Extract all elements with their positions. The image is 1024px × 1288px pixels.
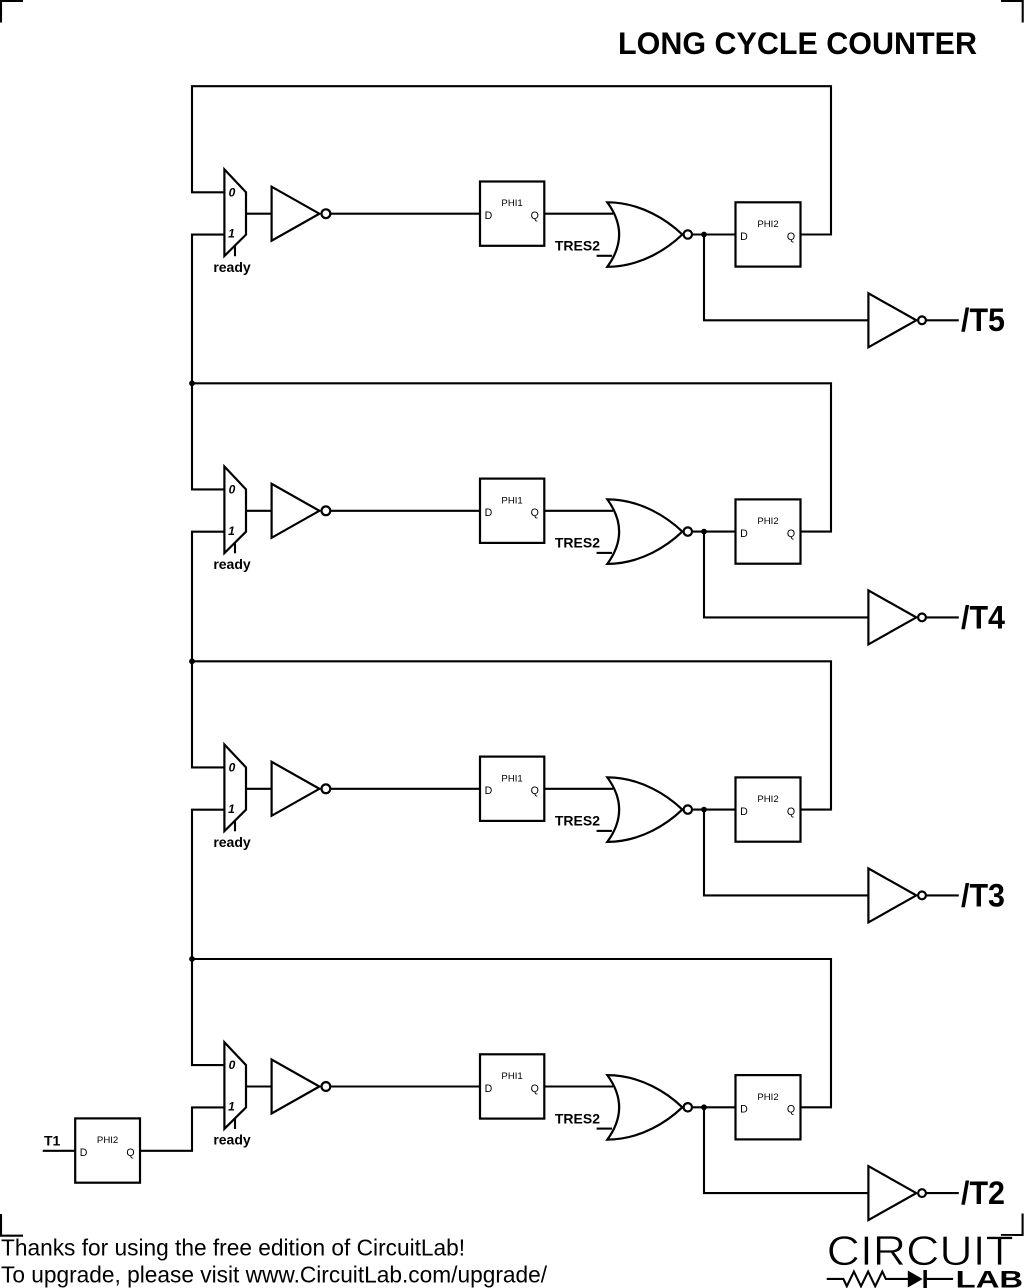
svg-text:ready: ready — [213, 556, 251, 572]
svg-text:TRES2: TRES2 — [555, 813, 600, 829]
svg-text:TRES2: TRES2 — [555, 1110, 600, 1126]
wire: mux input 1 chain row 2 — [192, 532, 224, 662]
svg-text:PHI2: PHI2 — [97, 1135, 118, 1146]
wire: NOR output down to output inverter row 4 — [704, 1107, 868, 1193]
wire: mux input 1 chain row 1 — [192, 235, 224, 384]
wire: PHI1 Q to NOR input row 1 — [544, 213, 613, 215]
D latch PHI2 row 4 — [736, 1075, 801, 1139]
wire: NOR output down to output inverter row 3 — [704, 810, 868, 896]
svg-text:0: 0 — [229, 185, 236, 199]
svg-text:0: 0 — [229, 1058, 236, 1072]
D latch PHI2 row 3 — [736, 777, 801, 841]
diode (logo) — [908, 1270, 953, 1288]
wire: PHI1 Q to NOR input row 4 — [544, 1085, 613, 1087]
inverter (output /T4) row 2 — [868, 590, 925, 644]
svg-text:/T2: /T2 — [961, 1175, 1005, 1211]
svg-text:PHI1: PHI1 — [501, 198, 522, 209]
svg-text:Q: Q — [531, 210, 539, 222]
inverter (driver) row 2 — [272, 484, 331, 538]
NOR gate row 4 — [607, 1075, 692, 1140]
D latch PHI2 row 1 — [736, 202, 801, 266]
wire: PHI1 Q to NOR input row 3 — [544, 788, 613, 790]
wire: NOR output down to output inverter row 2 — [704, 532, 868, 618]
NOR gate row 1 — [607, 202, 692, 266]
svg-text:/T5: /T5 — [961, 302, 1005, 338]
row 3 : stage for output /T3 — [189, 658, 1005, 959]
mux select pin tick — [234, 246, 236, 257]
wire: NOR out to PHI2 D row 3 — [692, 809, 736, 811]
svg-text:Q: Q — [126, 1147, 134, 1159]
wire: output inverter to label /T4 — [926, 616, 959, 618]
svg-text:Thanks for using the free edit: Thanks for using the free edition of Cir… — [1, 1235, 465, 1261]
svg-text:0: 0 — [229, 761, 236, 775]
svg-text:D: D — [740, 231, 748, 243]
svg-text:1: 1 — [228, 227, 235, 241]
wire: mux output to inverter row 4 — [246, 1085, 272, 1087]
wire: feedback net row 1 (PHI2 Q up over to mux input 0) — [192, 86, 831, 234]
mux row 4 (select: ready) — [213, 1042, 251, 1148]
svg-text:PHI2: PHI2 — [757, 219, 778, 230]
svg-text:PHI2: PHI2 — [757, 794, 778, 805]
wire: NOR out to PHI2 D row 4 — [692, 1106, 736, 1108]
NOR output bubble — [684, 805, 692, 813]
svg-text:TRES2: TRES2 — [555, 535, 600, 551]
wire: inverter out to PHI1 D row 4 — [330, 1085, 480, 1087]
svg-text:ready: ready — [213, 1132, 251, 1148]
svg-text:D: D — [80, 1147, 88, 1159]
svg-text:LAB: LAB — [956, 1266, 1023, 1288]
inverter (driver) row 4 — [272, 1060, 331, 1114]
wire: T1 input stub — [43, 1150, 75, 1152]
svg-text:Q: Q — [531, 785, 539, 797]
mux row 3 (select: ready) — [213, 745, 251, 851]
wire: NOR out to PHI2 D row 2 — [692, 531, 736, 533]
svg-text:Q: Q — [531, 507, 539, 519]
wire: inverter out to PHI1 D row 1 — [330, 213, 480, 215]
wire: feedback net row 3 (PHI2 Q up over to mux input 0) — [192, 661, 831, 809]
wire: mux input 1 chain row 3 — [192, 810, 224, 959]
wire: diode to LAB — [927, 1278, 953, 1280]
junction: node at NOR output row 3 — [701, 807, 707, 813]
mux select pin tick — [234, 821, 236, 832]
NOR output bubble — [684, 230, 692, 238]
wire: output inverter to label /T5 — [926, 319, 959, 321]
svg-text:1: 1 — [228, 524, 235, 538]
junction: node at NOR output row 4 — [701, 1104, 707, 1110]
wire: TRES2 stub to NOR lower input row 1 — [597, 255, 612, 257]
svg-text:D: D — [740, 1104, 748, 1116]
svg-text:0: 0 — [229, 483, 236, 497]
junction: node at NOR output row 2 — [701, 529, 707, 535]
inverter (output /T3) row 3 — [868, 868, 925, 922]
inverter (driver) row 1 — [272, 187, 331, 241]
svg-text:1: 1 — [228, 1100, 235, 1114]
D latch PHI1 row 2 — [480, 479, 544, 543]
svg-text:ready: ready — [213, 259, 251, 275]
wire: feedback net row 2 (PHI2 Q up over to mux input 0) — [192, 383, 831, 531]
svg-text:Q: Q — [787, 231, 795, 243]
svg-text:D: D — [485, 785, 493, 797]
inverter (output /T5) row 1 — [868, 293, 925, 347]
row 1 : stage for output /T5 — [192, 86, 1005, 383]
svg-text:Q: Q — [531, 1083, 539, 1095]
svg-text:Q: Q — [787, 806, 795, 818]
svg-text:D: D — [485, 1083, 493, 1095]
mux row 2 (select: ready) — [213, 467, 251, 573]
inverter (driver) row 3 — [272, 762, 331, 816]
wire: mux input 1 chain row 4 — [140, 1107, 224, 1150]
NOR gate row 3 — [607, 777, 692, 842]
svg-text:PHI2: PHI2 — [757, 1092, 778, 1103]
svg-text:Q: Q — [787, 528, 795, 540]
D latch PHI2 (T1 input) — [75, 1118, 140, 1182]
svg-text:T1: T1 — [44, 1132, 61, 1148]
D latch PHI1 row 4 — [480, 1054, 544, 1118]
wire: mux output to inverter row 3 — [246, 788, 272, 790]
svg-text:PHI1: PHI1 — [501, 1071, 522, 1082]
svg-text:/T4: /T4 — [961, 599, 1005, 635]
junction: node at left bus x=192 y=661.3 — [189, 658, 195, 664]
junction: node at left bus x=192 y=383.3 — [189, 380, 195, 386]
wire: TRES2 stub to NOR lower input row 4 — [597, 1128, 612, 1130]
resistor (logo) — [827, 1272, 908, 1287]
junction: node at left bus x=192 y=959 — [189, 956, 195, 962]
wire: inverter out to PHI1 D row 3 — [330, 788, 480, 790]
svg-text:D: D — [485, 507, 493, 519]
wire: TRES2 stub to NOR lower input row 2 — [597, 552, 612, 554]
wire: output inverter to label /T3 — [926, 894, 959, 896]
D latch PHI1 row 1 — [480, 182, 544, 246]
row 2 : stage for output /T4 — [189, 380, 1005, 661]
svg-text:PHI1: PHI1 — [501, 495, 522, 506]
mux row 1 (select: ready) — [213, 169, 251, 275]
wire: mux output to inverter row 2 — [246, 510, 272, 512]
wire: feedback net row 4 (PHI2 Q up over to mux input 0) — [192, 959, 831, 1107]
inverter (output /T2) row 4 — [868, 1166, 925, 1220]
wire: PHI1 Q to NOR input row 2 — [544, 510, 613, 512]
svg-text:D: D — [740, 528, 748, 540]
wire: mux output to inverter row 1 — [246, 213, 272, 215]
mux select pin tick — [234, 543, 236, 554]
svg-text:PHI1: PHI1 — [501, 773, 522, 784]
row 4 : stage for output /T2 — [140, 956, 1005, 1220]
wire: inverter out to PHI1 D row 2 — [330, 510, 480, 512]
svg-text:1: 1 — [228, 802, 235, 816]
wire: NOR out to PHI2 D row 1 — [692, 233, 736, 235]
NOR gate row 2 — [607, 499, 692, 564]
svg-text:To upgrade, please visit www.C: To upgrade, please visit www.CircuitLab.… — [1, 1262, 548, 1288]
junction: node at NOR output row 1 — [701, 232, 707, 238]
NOR output bubble — [684, 1103, 692, 1111]
svg-text:PHI2: PHI2 — [757, 516, 778, 527]
NOR output bubble — [684, 527, 692, 535]
D latch PHI2 row 2 — [736, 499, 801, 563]
svg-text:TRES2: TRES2 — [555, 238, 600, 254]
wire: NOR output down to output inverter row 1 — [704, 235, 868, 321]
D latch PHI1 row 3 — [480, 757, 544, 821]
svg-text:/T3: /T3 — [961, 877, 1005, 913]
svg-text:D: D — [485, 210, 493, 222]
wire: TRES2 stub to NOR lower input row 3 — [597, 830, 612, 832]
svg-text:D: D — [740, 806, 748, 818]
wire: output inverter to label /T2 — [926, 1192, 959, 1194]
mux select pin tick — [234, 1118, 236, 1129]
svg-text:Q: Q — [787, 1104, 795, 1116]
svg-text:ready: ready — [213, 834, 251, 850]
svg-text:LONG CYCLE COUNTER: LONG CYCLE COUNTER — [618, 25, 977, 61]
